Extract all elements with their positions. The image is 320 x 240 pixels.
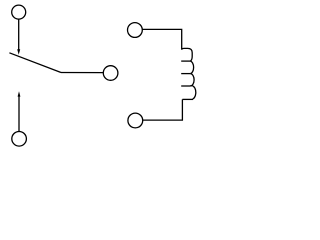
inductor L1 loop 4 [190, 86, 196, 100]
terminal circle coil bottom [128, 113, 143, 128]
wire from blade elbow to right terminal [61, 72, 103, 74]
inductor bottom return tick [182, 98, 193, 100]
terminal circle coil top [127, 23, 142, 38]
actuation arrow shaft (lower left) [18, 96, 20, 132]
terminal circle switch output [103, 66, 118, 81]
wire from coil bottom to bottom terminal [143, 99, 183, 120]
inductor crossing tick 1 [181, 60, 190, 62]
inductor L1 loop 1 [182, 48, 193, 61]
inductor L1 loop 2 [190, 61, 193, 74]
inductor crossing tick 2 [181, 73, 190, 75]
arrowhead pointing up [18, 91, 21, 96]
inductor L1 loop 3 [190, 74, 194, 86]
wire from coil top terminal to corner [142, 29, 181, 49]
switch blade (diagonal contact arm) [9, 53, 61, 73]
inductor crossing tick 3 [181, 85, 190, 87]
terminal circle top-left (switch common) [12, 5, 26, 19]
terminal circle bottom-left [12, 132, 27, 147]
wire from top-left terminal down [18, 19, 20, 49]
arrowhead pointing down onto switch blade [17, 49, 20, 55]
